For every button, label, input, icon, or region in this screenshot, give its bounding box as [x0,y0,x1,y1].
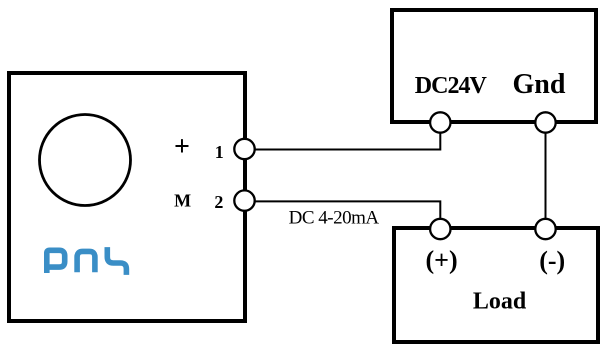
svg-text:DC 4-20mA: DC 4-20mA [289,208,380,229]
load box [394,228,598,342]
terminal (+) [430,219,450,239]
transmitter box U1 [9,73,245,321]
wire: terminal 2 to (+) terminal, DC 4-20mA line [245,201,441,229]
logo letter A [77,251,95,272]
terminal DC24V [430,112,450,132]
svg-text:(+): (+) [426,246,458,275]
svg-text:2: 2 [214,192,223,212]
svg-text:M: M [174,191,191,211]
svg-text:Gnd: Gnd [513,69,566,100]
logo letter P [44,250,64,273]
terminal 2 [234,190,254,210]
svg-text:1: 1 [215,142,224,162]
svg-text:(-): (-) [539,246,565,275]
logo PA-S (blue) [44,247,126,275]
terminal 1 [234,139,254,159]
power supply box [392,10,596,122]
logo letter S (step glyph) [107,247,126,275]
terminal Gnd [535,112,555,132]
sensor circle [40,115,131,206]
svg-text:+: + [174,132,190,163]
wire: terminal 1 to DC24V terminal [245,123,441,150]
svg-text:Load: Load [473,289,527,315]
terminal (-) [535,219,555,239]
svg-text:DC24V: DC24V [415,73,488,99]
wire: Gnd terminal to (-) terminal [545,123,547,230]
